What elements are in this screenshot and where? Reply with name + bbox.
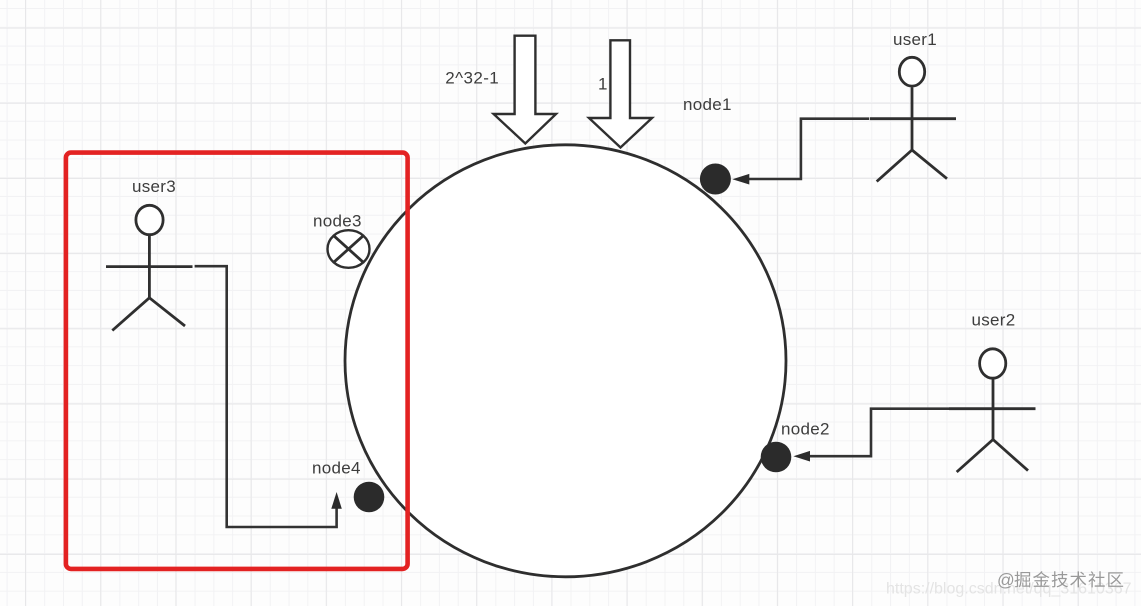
arrowhead at node4 xyxy=(331,492,342,509)
user1 stick figure xyxy=(870,57,956,181)
hash ring circle xyxy=(345,145,786,577)
user3 stick figure xyxy=(106,205,193,330)
user2 stick figure xyxy=(949,349,1036,472)
node4 dot xyxy=(354,482,385,513)
svg-text:@: @ xyxy=(997,570,1015,590)
svg-text:1: 1 xyxy=(598,74,607,93)
wire user3 to node4 xyxy=(195,266,337,527)
node2 dot xyxy=(761,442,792,473)
arrowhead at node1 xyxy=(732,174,749,185)
svg-text:node2: node2 xyxy=(781,419,830,438)
wire user1 to node1 xyxy=(748,119,869,179)
svg-text:2^32-1: 2^32-1 xyxy=(445,69,499,88)
svg-text:user1: user1 xyxy=(893,30,937,49)
red highlight rectangle xyxy=(66,153,408,569)
watermark CJK text 掘金技术社区 xyxy=(1014,571,1123,587)
big arrow 1 xyxy=(589,40,652,147)
big arrow 2^32-1 xyxy=(494,36,556,144)
svg-text:node1: node1 xyxy=(683,95,732,114)
wire user2 to node2 xyxy=(808,409,949,457)
svg-text:node3: node3 xyxy=(313,211,362,230)
svg-text:node4: node4 xyxy=(312,459,361,478)
arrowhead at node2 xyxy=(793,451,810,462)
svg-text:user2: user2 xyxy=(972,310,1016,329)
svg-text:user3: user3 xyxy=(132,177,176,196)
node3 circle-cross marker xyxy=(328,230,370,268)
node1 dot xyxy=(700,164,731,195)
